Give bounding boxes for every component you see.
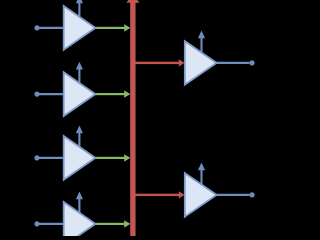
- node (input terminal dot of U2): [34, 92, 39, 97]
- node (output terminal dot of U5): [249, 60, 254, 65]
- wire (green output of U2 onto bus B, arrowhead): [95, 90, 131, 97]
- wire (blue input to U4): [37, 223, 65, 225]
- wire (enable control arrow up of U2): [76, 62, 83, 86]
- buffer U6 (tri-state driver): [185, 173, 217, 217]
- buffer U1 (tri-state driver): [64, 6, 96, 50]
- wire (enable control arrow up of U3): [76, 126, 83, 150]
- buffer U3 (tri-state driver): [64, 136, 96, 180]
- wire (enable control arrow up of U1): [76, 0, 83, 20]
- wire (red branch from bus B to U6 input, arrowhead): [136, 191, 185, 198]
- wire (blue input to U2): [37, 93, 65, 95]
- buffer U5 (tri-state driver): [185, 41, 217, 85]
- bus B (vertical red bus line, arrowhead up at top): [126, 0, 139, 236]
- wire (blue output of U5): [216, 62, 249, 64]
- buffer U2 (tri-state driver): [64, 72, 96, 116]
- wire (enable control arrow up of U5): [198, 31, 205, 55]
- buffer U4 (tri-state driver): [64, 202, 96, 240]
- wire (enable control arrow up of U4): [76, 192, 83, 216]
- node (input terminal dot of U4): [34, 221, 39, 226]
- wire (red branch from bus B to U5 input, arrowhead): [136, 59, 185, 66]
- wire (green output of U3 onto bus B, arrowhead): [95, 154, 131, 161]
- node (input terminal dot of U1): [34, 25, 39, 30]
- wire (enable control arrow up of U6): [198, 163, 205, 187]
- wire (green output of U1 onto bus B, arrowhead): [95, 24, 131, 31]
- wire (blue input to U3): [37, 157, 65, 159]
- wire (blue input to U1): [37, 27, 65, 29]
- node (input terminal dot of U3): [34, 155, 39, 160]
- node (output terminal dot of U6): [249, 192, 254, 197]
- wire (green output of U4 onto bus B, arrowhead): [95, 220, 131, 227]
- wire (blue output of U6): [216, 194, 249, 196]
